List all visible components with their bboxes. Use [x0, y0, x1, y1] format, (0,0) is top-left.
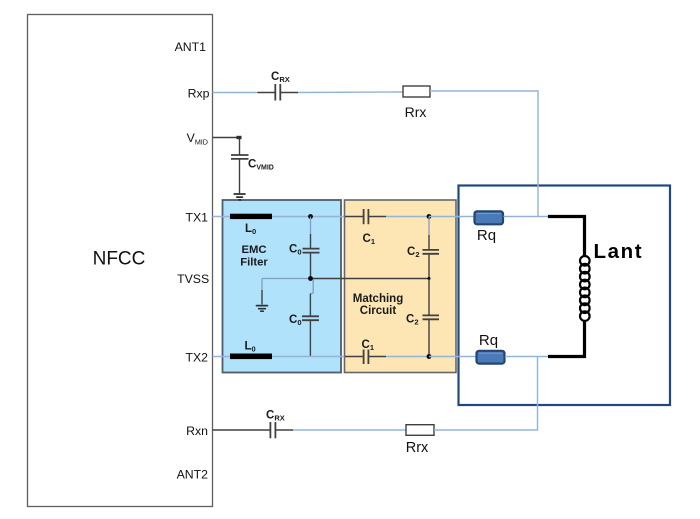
- matching circuit block: [345, 200, 457, 373]
- wire C1 to node: [386, 216, 429, 218]
- node TX1/C0 junction: [308, 214, 313, 219]
- wire TX2 node to Rq: [429, 356, 476, 358]
- svg-text:TVSS: TVSS: [177, 272, 209, 286]
- wire Rrx to right vertical: [430, 91, 538, 217]
- resistor Rq (bottom): [477, 332, 505, 364]
- svg-text:Rrx: Rrx: [406, 440, 429, 456]
- node mid junction: [308, 276, 313, 281]
- wire C0 to mid node: [310, 253, 312, 279]
- svg-text:ANT2: ANT2: [177, 468, 209, 482]
- wire CRX to Rrx: [298, 91, 403, 94]
- node TX1/C2 junction: [427, 214, 432, 219]
- wire mid node down with jog: [310, 280, 313, 294]
- wire CVMID to ground: [239, 159, 241, 194]
- wire Rxn to CRX: [213, 429, 271, 431]
- node TX2 junction: [427, 354, 432, 359]
- wire node down to C2: [428, 217, 430, 236]
- svg-text:TX1: TX1: [185, 211, 208, 225]
- NFCC IC box: [28, 15, 213, 507]
- svg-text:Lant: Lant: [594, 240, 644, 263]
- capacitor CRX (top): [258, 71, 299, 101]
- resistor Rrx (top): [403, 86, 430, 120]
- inductor L0 (top): [230, 214, 272, 237]
- svg-text:Matching: Matching: [353, 293, 403, 305]
- capacitor C0 (bottom): [289, 314, 319, 327]
- wire Rq bottom to bracket: [505, 356, 549, 358]
- capacitor C0 (top): [289, 243, 320, 256]
- svg-text:Rxn: Rxn: [186, 424, 208, 438]
- svg-text:Rq: Rq: [477, 227, 496, 244]
- svg-text:NFCC: NFCC: [93, 249, 146, 270]
- capacitor C1 (top): [345, 209, 387, 246]
- svg-text:Rxp: Rxp: [188, 87, 210, 101]
- wire Rrx bottom to right vertical up to TX2: [434, 357, 538, 431]
- svg-text:Rrx: Rrx: [405, 104, 427, 120]
- wire TX1 node to Rq: [429, 216, 474, 218]
- wire Rxp to CRX: [213, 92, 258, 94]
- ground (EMC filter): [257, 306, 268, 312]
- EMC filter block: [223, 200, 342, 373]
- capacitor CRX (bottom): [266, 410, 293, 439]
- svg-text:Filter: Filter: [240, 256, 268, 268]
- capacitor C2 (top): [407, 246, 439, 259]
- wire TX1: [213, 216, 345, 218]
- node mid right (small): [428, 277, 431, 280]
- wire mid node down to C2 bottom: [428, 279, 430, 316]
- resistor Rq (top): [475, 211, 504, 244]
- capacitor C2 (bottom): [406, 314, 439, 327]
- svg-text:EMC: EMC: [241, 244, 266, 256]
- antenna box: [459, 186, 671, 406]
- wire C0 bottom to TX2: [309, 320, 311, 356]
- wire mid to ground: [261, 279, 263, 291]
- inductor L0 (bottom): [230, 341, 272, 360]
- svg-text:ANT1: ANT1: [175, 40, 207, 54]
- wire C2 to mid wire: [428, 254, 430, 279]
- wire junction down to C0: [310, 217, 312, 235]
- svg-text:Rq: Rq: [479, 332, 498, 349]
- resistor Rrx (bottom): [406, 425, 434, 456]
- capacitor C1 (bottom): [345, 339, 387, 364]
- wire C2 bottom to TX2 node: [428, 319, 430, 356]
- capacitor CVMID: [231, 155, 274, 172]
- inductor Lant (antenna coil): [548, 217, 643, 357]
- wire mid horizontal: [262, 278, 311, 280]
- ground (under CVMID): [234, 194, 245, 200]
- wire CRX to Rrx bottom: [293, 429, 406, 431]
- wire Rq top to bracket: [504, 216, 550, 218]
- svg-text:TX2: TX2: [185, 351, 208, 365]
- wire C1 bottom to node: [386, 356, 429, 358]
- wire VMID: [213, 138, 240, 155]
- wire TX2: [213, 356, 345, 358]
- svg-text:Circuit: Circuit: [360, 305, 397, 317]
